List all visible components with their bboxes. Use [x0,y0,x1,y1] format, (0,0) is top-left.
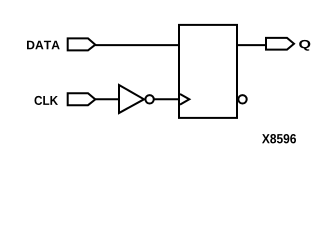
wire CLK pin to inverter input [95,98,120,100]
inverter U2 triangle [119,85,144,113]
figure label X8596 [262,134,296,143]
wire inverter output to flip-flop clock input [154,98,180,100]
inverted-output bubble on flip-flop [238,95,246,103]
input pin DATA [68,38,96,50]
wire DATA pin to flip-flop D input [95,44,180,46]
net label DATA [27,41,60,50]
wire flip-flop Q to output pin [237,44,266,46]
net label Q [299,40,310,51]
inverter U2 output bubble [145,95,153,103]
output pin Q [266,38,294,50]
net label CLK [34,96,57,105]
flip-flop U1 body [179,25,237,118]
clock edge-trigger triangle on flip-flop [180,94,189,105]
input pin CLK [68,93,96,105]
